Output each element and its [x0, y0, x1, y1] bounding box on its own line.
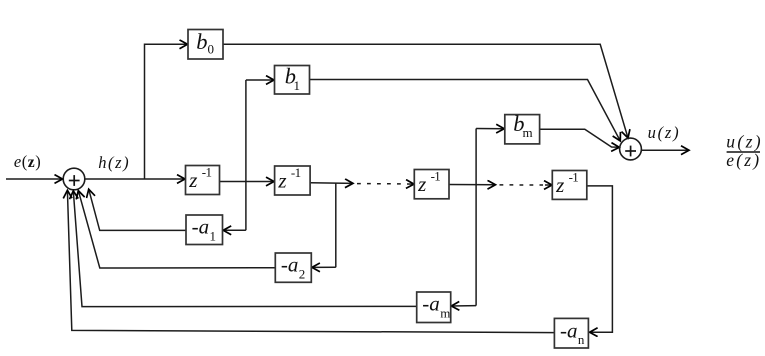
svg-text:-a: -a — [422, 291, 440, 315]
svg-text:e(z): e(z) — [14, 152, 41, 171]
svg-text:z: z — [277, 168, 286, 192]
svg-text:m: m — [440, 306, 450, 321]
svg-text:b: b — [196, 29, 207, 54]
svg-text:-1: -1 — [202, 165, 212, 180]
svg-text:-a: -a — [192, 214, 210, 238]
svg-text:z: z — [417, 172, 426, 196]
svg-text:z: z — [188, 168, 197, 192]
svg-text:-1: -1 — [291, 165, 301, 180]
svg-text:-1: -1 — [569, 170, 579, 185]
svg-text:m: m — [523, 125, 533, 140]
svg-text:2: 2 — [299, 267, 306, 282]
svg-text:-a: -a — [281, 252, 299, 276]
svg-text:n: n — [578, 332, 585, 347]
svg-text:-a: -a — [560, 318, 578, 342]
svg-text:0: 0 — [208, 41, 215, 56]
svg-text:h(z): h(z) — [98, 153, 128, 172]
svg-text:-1: -1 — [431, 169, 441, 184]
svg-text:z: z — [555, 173, 564, 197]
svg-text:1: 1 — [210, 229, 217, 244]
svg-text:u(z): u(z) — [648, 123, 679, 142]
svg-text:1: 1 — [294, 78, 301, 93]
